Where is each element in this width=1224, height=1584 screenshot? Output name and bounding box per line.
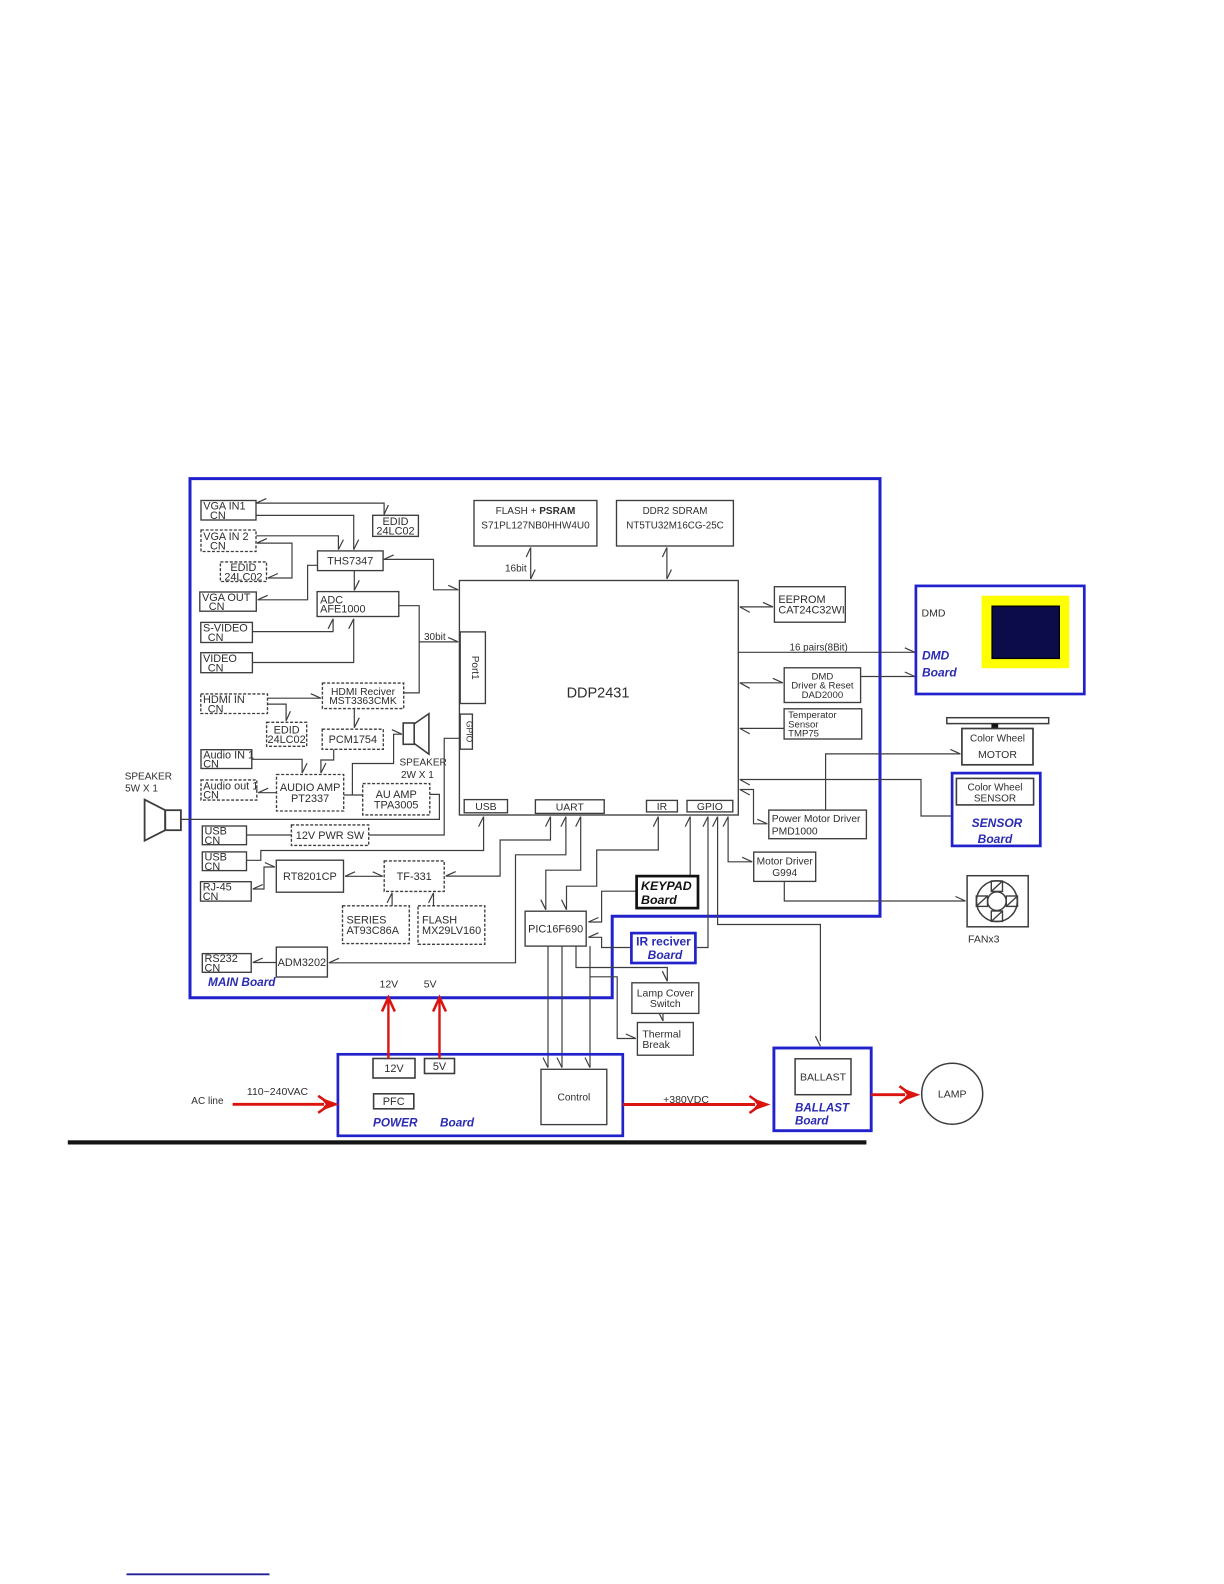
wire FLASH MX29LV160 to TF-331 <box>429 893 434 906</box>
label 5V rail <box>424 979 437 991</box>
label 16bit <box>505 564 527 575</box>
DMD chip die <box>992 606 1059 658</box>
color wheel disc <box>947 718 1049 724</box>
port GPIO (side) <box>460 714 474 749</box>
label POWER Board <box>373 1116 475 1130</box>
svg-text:IR reciver: IR reciver <box>636 934 691 948</box>
block Thermal Break <box>637 1023 693 1056</box>
wire PIC16F690 to Lamp Cover Switch <box>576 946 667 981</box>
svg-text:SPEAKER: SPEAKER <box>125 772 172 783</box>
block PCM1754 <box>322 729 383 749</box>
wire audio to speaker 2W <box>352 730 402 795</box>
svg-text:PCM1754: PCM1754 <box>329 734 377 746</box>
svg-text:DMD: DMD <box>922 608 946 620</box>
board POWER Board outline <box>338 1054 623 1136</box>
svg-text:AFE1000: AFE1000 <box>320 604 365 616</box>
svg-text:Color Wheel: Color Wheel <box>967 783 1022 794</box>
block USB CN 2 <box>202 852 246 873</box>
label 16 pairs(8Bit) <box>790 643 848 654</box>
label DMD Board <box>922 649 957 680</box>
wire AUDIO AMP to AU AMP <box>344 794 363 796</box>
block Color Wheel SENSOR <box>956 778 1033 805</box>
svg-text:CN: CN <box>205 861 221 873</box>
block Control <box>541 1069 607 1124</box>
separator line <box>68 1140 867 1144</box>
label BALLAST Board <box>795 1102 850 1128</box>
footer underline <box>127 1573 270 1575</box>
wire VGA IN 2 to THS7347 <box>256 536 343 550</box>
svg-text:Board: Board <box>922 666 957 680</box>
wire VIDEO to ADC <box>252 619 353 663</box>
svg-text:G994: G994 <box>772 868 797 879</box>
label SPEAKER 2W X 1 <box>400 758 447 781</box>
power arrow +380VDC to BALLAST Board <box>623 1096 771 1113</box>
svg-text:Board: Board <box>440 1116 475 1130</box>
label 110~240VAC <box>247 1086 309 1098</box>
svg-text:2W X 1: 2W X 1 <box>401 770 434 781</box>
svg-text:CN: CN <box>203 759 219 771</box>
block FLASH MX29LV160 <box>418 906 485 945</box>
svg-text:Color Wheel: Color Wheel <box>970 734 1025 745</box>
svg-text:CN: CN <box>208 703 224 715</box>
svg-text:Board: Board <box>795 1115 829 1128</box>
label 30bit <box>424 632 446 643</box>
block RT8201CP <box>276 860 343 892</box>
svg-text:12V: 12V <box>384 1063 404 1075</box>
block EDID 24LC02 (top) <box>373 515 419 537</box>
svg-text:MX29LV160: MX29LV160 <box>422 925 481 937</box>
svg-text:PT2337: PT2337 <box>291 793 329 805</box>
block VGA IN1 CN <box>201 501 256 522</box>
svg-text:PFC: PFC <box>383 1096 405 1108</box>
wire PIC16F690 to Control line 1 <box>543 946 548 1068</box>
svg-text:FANx3: FANx3 <box>968 934 1000 946</box>
block EEPROM CAT24C32WI <box>774 587 845 623</box>
board BALLAST Board outline <box>774 1048 871 1131</box>
svg-text:Board: Board <box>641 893 677 907</box>
wire DDP2431 GPIO to Motor Driver G994 <box>723 817 752 862</box>
wire DDP2431 GPIO to BALLAST Board <box>713 817 821 1047</box>
wire Color Wheel SENSOR to DDP2431 <box>740 780 952 817</box>
block TF-331 <box>384 861 444 892</box>
block EDID 24LC02 (HDMI) <box>267 722 307 746</box>
wire DDP2431 IR to PIC16F690 <box>562 817 659 910</box>
svg-text:Break: Break <box>642 1039 670 1051</box>
wire 12V PWR SW to GPIO <box>369 738 460 835</box>
svg-text:16 pairs(8Bit): 16 pairs(8Bit) <box>790 643 848 654</box>
block PFC <box>374 1094 414 1109</box>
svg-text:NT5TU32M16CG-25C: NT5TU32M16CG-25C <box>626 521 723 532</box>
wire THS7347 to DDP2431 <box>384 555 459 590</box>
svg-text:PMD1000: PMD1000 <box>772 826 818 837</box>
board DMD Board outline <box>916 586 1084 694</box>
wire RJ-45 to RT8201CP <box>253 863 275 890</box>
wire DDR2 SDRAM to DDP2431 <box>662 548 671 580</box>
block Color Wheel MOTOR <box>962 729 1033 765</box>
wire to Thermal Break <box>590 977 636 1039</box>
wire DDP2431 to EEPROM <box>740 602 773 612</box>
svg-text:Power Motor Driver: Power Motor Driver <box>772 814 861 825</box>
svg-text:DMD: DMD <box>922 649 950 663</box>
wire RT8201CP to TF-331 <box>345 872 383 877</box>
block Power Motor Driver PMD1000 <box>769 810 867 839</box>
label SPEAKER 5W X 1 <box>125 772 172 795</box>
block HDMI IN CN <box>201 694 268 715</box>
wire VGA IN 2 to EDID 24LC02 (left) <box>257 539 292 578</box>
wire PCM1754 to AUDIO AMP <box>321 749 334 773</box>
svg-text:Motor Driver: Motor Driver <box>757 857 814 868</box>
svg-text:MOTOR: MOTOR <box>978 749 1017 761</box>
fan FANx3 icon <box>967 876 1028 927</box>
svg-text:CN: CN <box>205 835 221 847</box>
label +380VDC <box>663 1094 709 1106</box>
chip DDP2431 <box>459 581 738 816</box>
svg-text:IR: IR <box>657 802 668 813</box>
block RS232 CN <box>202 953 251 974</box>
block 12V PWR SW <box>291 825 368 846</box>
wire Temperator Sensor TMP75 to DDP2431 <box>740 728 784 734</box>
svg-text:MAIN Board: MAIN Board <box>208 975 276 989</box>
power arrow AC line to POWER Board <box>233 1096 340 1113</box>
wire 30bit branch to Port1 <box>419 637 458 642</box>
svg-text:24LC02: 24LC02 <box>268 734 306 746</box>
wire RS232 to ADM3202 <box>253 958 276 963</box>
power arrow 12V to MAIN Board <box>382 998 395 1059</box>
block SERIES AT93C86A <box>343 906 410 944</box>
port GPIO <box>687 800 733 813</box>
block DMD Driver & Reset DAD2000 <box>784 668 860 703</box>
svg-text:5V: 5V <box>424 979 437 991</box>
block EDID 24LC02 (left) <box>220 562 266 583</box>
board IR reciver Board <box>631 933 695 963</box>
block RJ-45 CN <box>201 882 252 903</box>
svg-text:KEYPAD: KEYPAD <box>641 879 692 893</box>
wire DDP2431 UART to PIC16F690 <box>541 817 581 910</box>
svg-text:SENSOR: SENSOR <box>972 816 1023 830</box>
block S-VIDEO CN <box>201 622 253 644</box>
block 5V <box>425 1059 455 1074</box>
svg-text:ADM3202: ADM3202 <box>278 957 326 969</box>
label FANx3 <box>968 934 1000 946</box>
svg-text:12V PWR SW: 12V PWR SW <box>296 830 365 842</box>
svg-text:AC line: AC line <box>191 1096 224 1107</box>
color wheel hub <box>991 724 998 730</box>
block ADM3202 <box>276 947 327 977</box>
wire ADM3202 to DDP2431 UART <box>329 817 566 963</box>
svg-text:CN: CN <box>208 662 224 674</box>
svg-text:TPA3005: TPA3005 <box>374 799 419 811</box>
svg-text:CN: CN <box>210 540 226 552</box>
block HDMI Reciver MST3363CMK <box>322 683 403 709</box>
label DMD <box>922 608 946 620</box>
svg-text:AT93C86A: AT93C86A <box>347 925 400 937</box>
lamp LAMP <box>922 1063 983 1124</box>
svg-text:SPEAKER: SPEAKER <box>400 758 447 769</box>
svg-text:CN: CN <box>210 510 226 522</box>
wire Audio IN 1 to AUDIO AMP <box>252 759 307 773</box>
block ADC AFE1000 <box>317 592 399 617</box>
port Port1 <box>460 632 485 704</box>
svg-text:CN: CN <box>209 601 225 613</box>
svg-text:CN: CN <box>203 891 219 903</box>
block AUDIO AMP PT2337 <box>277 775 344 812</box>
label 12V rail <box>380 979 399 991</box>
svg-text:GPIO: GPIO <box>464 721 474 743</box>
block Audio out 1 CN <box>201 780 258 802</box>
svg-text:TMP75: TMP75 <box>788 729 819 740</box>
wire DAD2000 to DMD Board <box>861 672 915 677</box>
svg-text:5W X 1: 5W X 1 <box>125 784 158 795</box>
svg-text:Board: Board <box>978 832 1013 846</box>
block VIDEO CN <box>201 653 253 675</box>
svg-text:24LC02: 24LC02 <box>376 525 414 537</box>
wire TF-331 to DDP2431 UART <box>446 817 551 877</box>
block DDR2 SDRAM NT5TU32M16CG-25C <box>617 501 734 547</box>
wire FLASH+PSRAM to DDP2431 16bit <box>526 548 535 580</box>
speaker 5W icon <box>145 800 181 841</box>
label SENSOR Board <box>972 816 1023 846</box>
block 12V <box>373 1059 415 1079</box>
svg-text:DAD2000: DAD2000 <box>802 690 844 701</box>
wire HDMI receiver to PCM1754 <box>354 709 359 728</box>
svg-text:RT8201CP: RT8201CP <box>283 871 337 883</box>
wire SERIES AT93C86A to TF-331 <box>387 893 392 906</box>
svg-text:THS7347: THS7347 <box>327 556 373 568</box>
wire THS7347 to ADC AFE1000 <box>354 571 359 591</box>
svg-text:BALLAST: BALLAST <box>795 1102 850 1115</box>
svg-text:TF-331: TF-331 <box>397 871 432 883</box>
svg-text:DDP2431: DDP2431 <box>567 686 630 702</box>
label MAIN Board <box>208 975 276 989</box>
svg-text:+380VDC: +380VDC <box>663 1094 709 1106</box>
svg-text:30bit: 30bit <box>424 632 446 643</box>
wire AU AMP to speaker 5W <box>181 794 440 819</box>
svg-text:Board: Board <box>648 948 683 962</box>
svg-text:CN: CN <box>203 790 219 802</box>
port USB <box>464 800 507 813</box>
wire DDP2431 to Power Motor Driver PMD1000 <box>740 790 768 824</box>
wire DDP2431 GPIO to KEYPAD Board <box>685 817 690 877</box>
wire PIC16F690 to IR receiver Board <box>588 933 631 948</box>
block VGA IN 2 CN <box>201 530 256 552</box>
svg-text:SENSOR: SENSOR <box>974 794 1016 805</box>
block THS7347 <box>318 551 384 571</box>
wire THS7347 to VGA OUT <box>258 565 318 600</box>
wire HDMI IN to HDMI receiver <box>268 694 321 699</box>
block Audio IN 1 CN <box>201 749 254 770</box>
block FLASH + PSRAM S71PL127NB0HHW4U0 <box>474 501 597 547</box>
wire ADC and HDMI receiver 30bit trunk <box>399 606 419 693</box>
power arrow 5V to MAIN Board <box>433 998 446 1059</box>
svg-text:DDR2 SDRAM: DDR2 SDRAM <box>643 506 708 517</box>
svg-text:USB: USB <box>475 802 496 813</box>
block USB CN 1 <box>202 826 246 847</box>
block PIC16F690 <box>525 911 586 946</box>
wire VGA IN1 to EDID 24LC02 (top) <box>256 499 388 515</box>
block Lamp Cover Switch <box>632 983 699 1014</box>
block Motor Driver G994 <box>754 852 816 881</box>
svg-text:24LC02: 24LC02 <box>224 571 262 583</box>
svg-text:CN: CN <box>208 632 224 644</box>
block Temperator Sensor TMP75 <box>784 709 862 740</box>
svg-text:Port1: Port1 <box>469 656 480 680</box>
wire PIC16F690 to Control line 3 <box>585 946 590 1068</box>
svg-text:Control: Control <box>557 1093 590 1104</box>
power arrow BALLAST to LAMP <box>871 1086 920 1103</box>
wire PMD1000 to Color Wheel MOTOR <box>826 749 961 810</box>
svg-text:UART: UART <box>556 802 585 813</box>
svg-text:PIC16F690: PIC16F690 <box>528 924 583 936</box>
block VGA OUT CN <box>200 592 256 613</box>
svg-text:BALLAST: BALLAST <box>800 1072 847 1084</box>
DMD chip yellow package <box>982 596 1070 669</box>
svg-text:5V: 5V <box>433 1061 447 1073</box>
svg-text:Switch: Switch <box>650 998 681 1010</box>
wire USB CN to DDP2431 USB <box>247 817 484 861</box>
svg-text:12V: 12V <box>380 979 399 991</box>
svg-text:FLASH + PSRAM: FLASH + PSRAM <box>496 506 576 517</box>
svg-text:GPIO: GPIO <box>697 802 723 813</box>
board SENSOR Board outline <box>952 773 1040 846</box>
svg-text:LAMP: LAMP <box>938 1089 967 1101</box>
wire KEYPAD Board to PIC16F690 <box>588 891 636 922</box>
svg-text:CAT24C32WI: CAT24C32WI <box>778 605 844 617</box>
wire DDP2431 to DMD Driver DAD2000 <box>740 678 783 688</box>
speaker 2W icon <box>403 714 429 755</box>
label AC line <box>191 1096 224 1107</box>
wire AUDIO AMP to Audio out 1 <box>258 788 276 793</box>
wire DDP2431 GPIO to IR receiver Board <box>697 817 708 948</box>
port UART <box>535 800 604 814</box>
wire VGA IN1 to THS7347 <box>256 515 358 549</box>
svg-text:16bit: 16bit <box>505 564 527 575</box>
port IR <box>647 800 678 813</box>
block BALLAST <box>795 1059 851 1095</box>
wire DDP2431 to DMD Board 16 pairs <box>738 648 915 653</box>
wire S-VIDEO to ADC <box>252 619 333 632</box>
MAIN Board outline <box>190 479 880 998</box>
wire USB CN to 12V PWR SW <box>247 834 292 836</box>
wire Motor Driver G994 to FANx3 <box>784 881 965 901</box>
svg-text:CN: CN <box>205 963 221 975</box>
svg-text:110~240VAC: 110~240VAC <box>247 1086 309 1098</box>
wire HDMI IN to EDID 24LC02 (HDMI) <box>257 700 290 721</box>
wire Lamp Cover Switch to Thermal Break <box>658 1011 663 1021</box>
svg-text:S71PL127NB0HHW4U0: S71PL127NB0HHW4U0 <box>481 521 590 532</box>
block AU AMP TPA3005 <box>363 784 430 815</box>
svg-text:MST3363CMK: MST3363CMK <box>329 696 397 707</box>
wire PIC16F690 to Control line 2 <box>557 946 562 1068</box>
board KEYPAD Board <box>637 876 698 908</box>
svg-text:POWER: POWER <box>373 1116 418 1130</box>
